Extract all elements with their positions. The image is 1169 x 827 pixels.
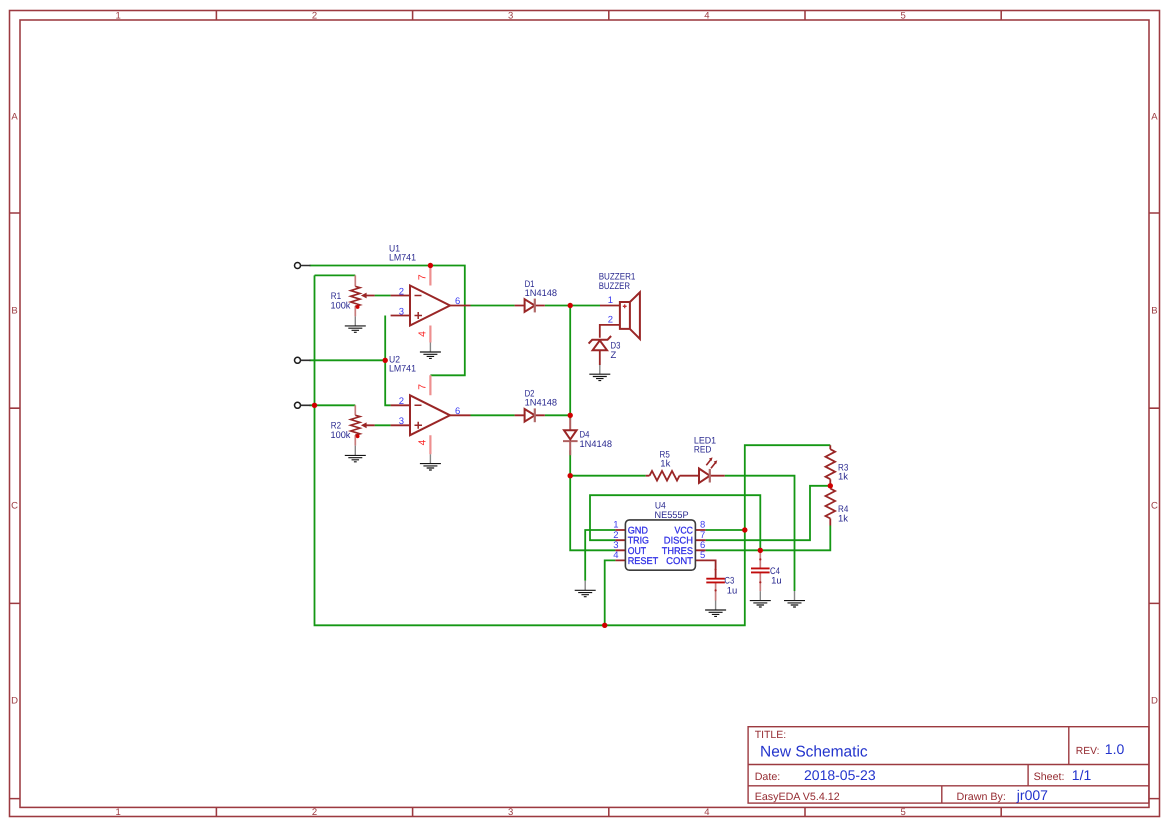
svg-text:3: 3 <box>508 10 513 21</box>
svg-text:Z: Z <box>611 350 617 361</box>
svg-text:6: 6 <box>455 296 460 307</box>
svg-text:New Schematic: New Schematic <box>760 744 868 761</box>
svg-text:D: D <box>11 696 18 707</box>
svg-text:1: 1 <box>116 807 121 818</box>
svg-text:2: 2 <box>399 286 404 297</box>
svg-text:1k: 1k <box>838 472 848 483</box>
svg-text:2018-05-23: 2018-05-23 <box>804 767 876 783</box>
svg-text:Drawn By:: Drawn By: <box>957 791 1006 803</box>
svg-text:1N4148: 1N4148 <box>580 439 613 450</box>
svg-text:B: B <box>11 306 17 317</box>
svg-text:1N4148: 1N4148 <box>525 288 558 299</box>
svg-text:7: 7 <box>417 384 428 390</box>
svg-text:jr007: jr007 <box>1016 787 1048 803</box>
svg-text:1N4148: 1N4148 <box>525 398 558 409</box>
svg-text:B: B <box>1151 306 1157 317</box>
svg-text:TITLE:: TITLE: <box>755 729 787 741</box>
svg-text:100k: 100k <box>331 300 351 311</box>
svg-text:1: 1 <box>116 10 121 21</box>
svg-text:2: 2 <box>399 396 404 407</box>
svg-text:NE555P: NE555P <box>655 510 689 521</box>
svg-text:C: C <box>1151 501 1158 512</box>
svg-text:4: 4 <box>704 10 709 21</box>
svg-text:4: 4 <box>417 439 428 445</box>
svg-text:1u: 1u <box>771 575 782 586</box>
svg-text:2: 2 <box>312 10 317 21</box>
svg-text:3: 3 <box>399 416 404 427</box>
svg-text:1k: 1k <box>838 513 848 524</box>
svg-text:6: 6 <box>455 406 460 417</box>
svg-text:1: 1 <box>608 295 613 306</box>
svg-text:5: 5 <box>900 10 905 21</box>
svg-text:C: C <box>11 501 18 512</box>
svg-text:Sheet:: Sheet: <box>1034 771 1065 783</box>
svg-text:RESET: RESET <box>628 556 659 567</box>
svg-text:1.0: 1.0 <box>1105 741 1125 757</box>
svg-text:1/1: 1/1 <box>1072 767 1092 783</box>
svg-text:1u: 1u <box>727 585 738 596</box>
svg-text:EasyEDA V5.4.12: EasyEDA V5.4.12 <box>755 791 840 803</box>
svg-text:2: 2 <box>608 314 613 325</box>
svg-text:100k: 100k <box>331 430 351 441</box>
svg-text:1k: 1k <box>660 458 670 469</box>
svg-text:5: 5 <box>700 550 705 561</box>
svg-text:3: 3 <box>399 306 404 317</box>
svg-text:7: 7 <box>417 274 428 280</box>
svg-text:BUZZER: BUZZER <box>599 281 630 292</box>
svg-text:A: A <box>1151 112 1158 123</box>
svg-text:4: 4 <box>704 807 709 818</box>
svg-text:4: 4 <box>417 331 428 337</box>
svg-text:REV:: REV: <box>1076 746 1100 757</box>
svg-text:5: 5 <box>900 807 905 818</box>
svg-text:2: 2 <box>312 807 317 818</box>
svg-text:CONT: CONT <box>666 556 693 567</box>
svg-text:D: D <box>1151 696 1158 707</box>
svg-text:Date:: Date: <box>755 771 781 783</box>
svg-text:RED: RED <box>694 444 712 455</box>
svg-text:LM741: LM741 <box>389 364 416 375</box>
svg-text:LM741: LM741 <box>389 253 416 264</box>
svg-text:4: 4 <box>613 550 618 561</box>
svg-text:3: 3 <box>508 807 513 818</box>
svg-text:A: A <box>11 112 18 123</box>
